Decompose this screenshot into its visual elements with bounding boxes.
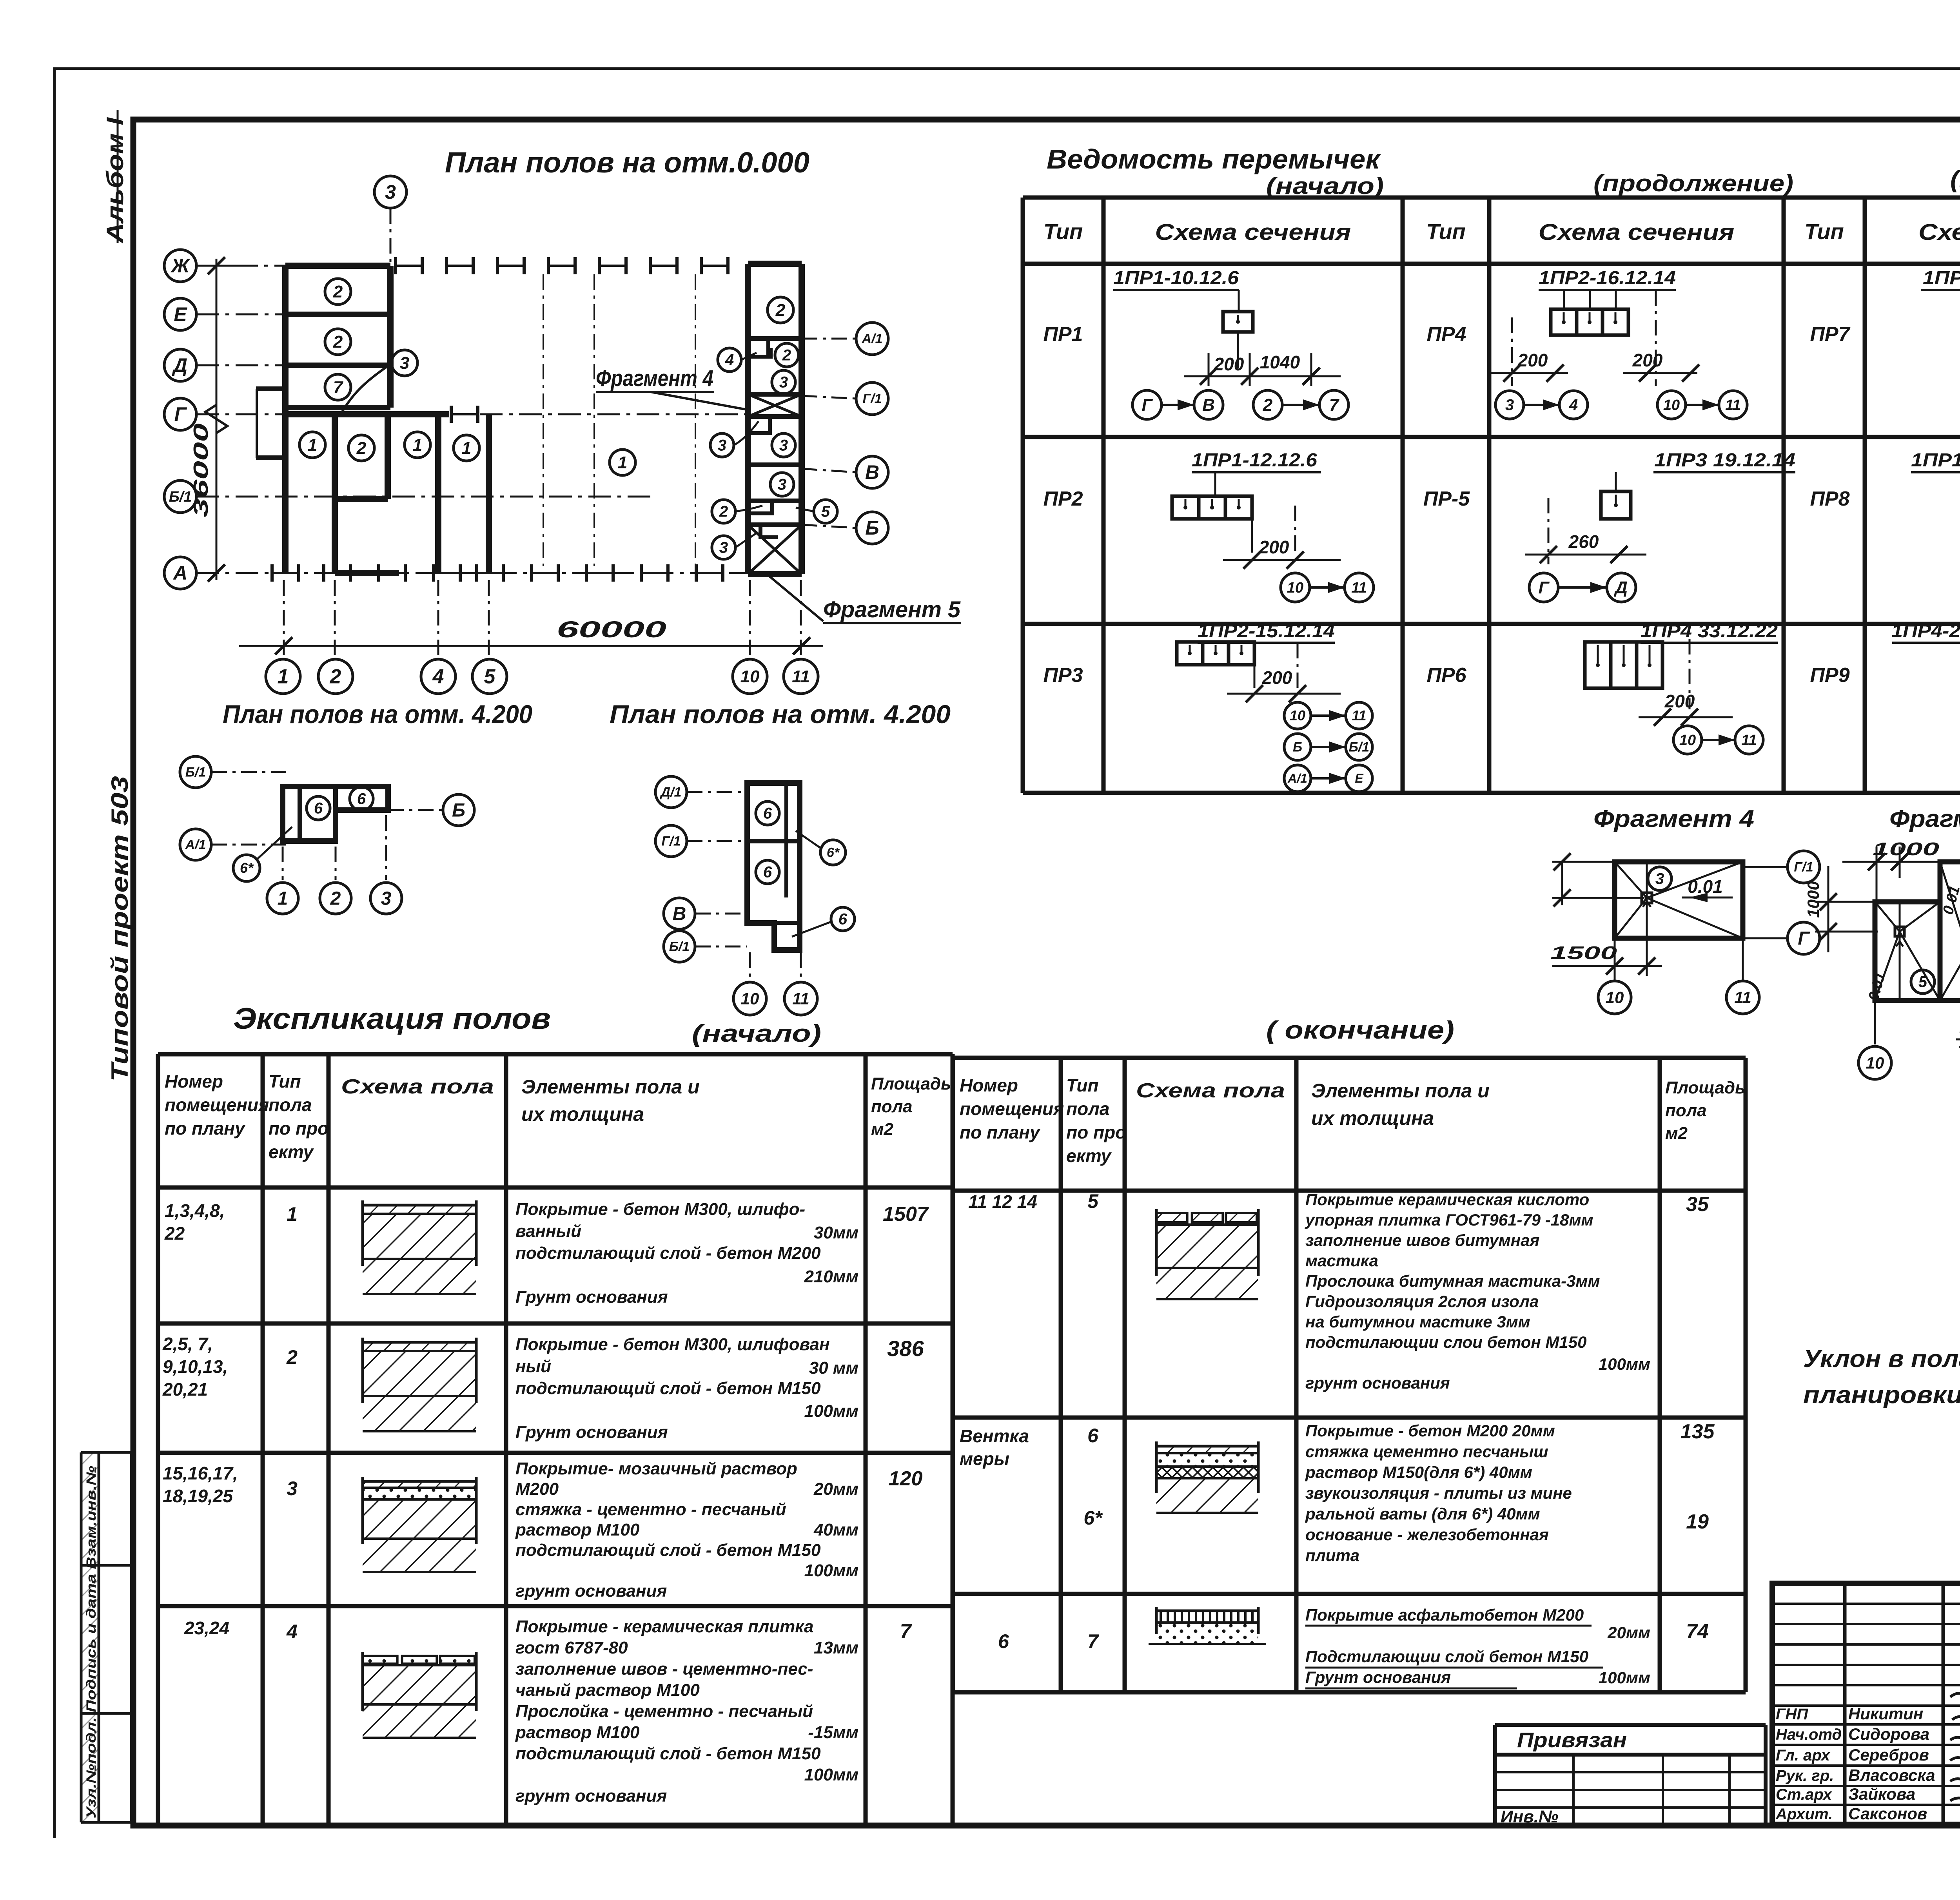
- room label 1 a: [299, 432, 325, 458]
- axis circle 2: [318, 659, 353, 694]
- axis circle 11: [784, 659, 818, 694]
- svg-text:10: 10: [741, 989, 759, 1008]
- svg-text:10: 10: [1663, 397, 1680, 413]
- svg-text:Грунт основания: Грунт основания: [515, 1423, 668, 1442]
- svg-text:пола: пола: [871, 1097, 913, 1116]
- svg-text:11: 11: [792, 667, 810, 686]
- svg-text:Схема сечения: Схема сечения: [1155, 219, 1351, 245]
- leader circle 2 left: [712, 500, 735, 523]
- B/1 wall segment: [335, 496, 388, 502]
- svg-text:2: 2: [333, 282, 343, 301]
- svg-text:Г: Г: [174, 403, 187, 425]
- svg-text:А/1: А/1: [862, 332, 883, 346]
- svg-text:Г: Г: [1142, 395, 1153, 415]
- svg-text:3: 3: [1505, 397, 1514, 414]
- svg-text:ПР1: ПР1: [1043, 323, 1083, 346]
- svg-text:3: 3: [400, 354, 409, 373]
- room label 1 big bay: [610, 450, 635, 475]
- axis circle G: [164, 398, 196, 430]
- svg-text:Схема сечения: Схема сечения: [1539, 219, 1735, 245]
- svg-text:Фрагмент 5: Фрагмент 5: [1889, 805, 1960, 832]
- svg-text:гост 6787-80: гост 6787-80: [515, 1638, 628, 1657]
- svg-text:по про: по про: [1066, 1122, 1126, 1142]
- svg-text:3: 3: [718, 437, 726, 454]
- svg-text:30мм: 30мм: [814, 1223, 858, 1242]
- wall at 989: [385, 414, 391, 499]
- svg-text:6*: 6*: [827, 845, 840, 860]
- svg-text:Е: Е: [174, 303, 187, 325]
- svg-text:200: 200: [1262, 667, 1292, 688]
- leader 6 small right: [831, 907, 855, 931]
- leader circle 3 lower left: [712, 536, 735, 559]
- svg-text:Г/1: Г/1: [661, 834, 681, 849]
- svg-text:Прослоика битумная мастика-3мм: Прослоика битумная мастика-3мм: [1305, 1272, 1600, 1290]
- axis line Zh: [196, 265, 235, 267]
- svg-text:подстилающий слой - бетон М150: подстилающий слой - бетон М150: [515, 1744, 821, 1763]
- svg-text:Е: Е: [1355, 771, 1364, 785]
- svg-text:100мм: 100мм: [1599, 1355, 1650, 1373]
- signature squiggles: [1950, 1690, 1960, 1801]
- svg-text:11: 11: [1351, 580, 1367, 596]
- svg-text:раствор М100: раствор М100: [515, 1723, 640, 1742]
- fragment 4 drain leader: [1648, 867, 1671, 890]
- svg-text:1ПР1-12.12.6: 1ПР1-12.12.6: [1192, 450, 1317, 471]
- svg-text:2: 2: [782, 347, 791, 364]
- axis circle B/1: [164, 480, 196, 513]
- svg-text:грунт основания: грунт основания: [515, 1786, 667, 1806]
- svg-text:Б/1: Б/1: [185, 765, 206, 780]
- svg-text:1: 1: [278, 888, 288, 909]
- svg-text:ПР7: ПР7: [1810, 323, 1850, 346]
- leader circle 3 at G wall: [392, 350, 417, 376]
- explication left table frame: [156, 1054, 160, 1826]
- leader 6star small right: [820, 840, 846, 865]
- room label 2 b: [348, 435, 374, 461]
- svg-text:Грунт основания: Грунт основания: [515, 1287, 668, 1307]
- svg-text:1: 1: [618, 453, 627, 472]
- svg-text:Г: Г: [1538, 578, 1550, 597]
- left margin signature strip: [81, 1452, 99, 1822]
- svg-text:Площадь: Площадь: [871, 1074, 951, 1093]
- svg-text:Покрытие асфальтобетон М200: Покрытие асфальтобетон М200: [1305, 1606, 1584, 1624]
- svg-text:23,24: 23,24: [184, 1618, 229, 1638]
- svg-text:10: 10: [1290, 707, 1305, 723]
- vertical dimension 36000: [216, 259, 218, 580]
- svg-text:Номер: Номер: [960, 1075, 1018, 1095]
- axis 3 circle top: [374, 176, 407, 208]
- svg-text:1: 1: [308, 435, 317, 455]
- svg-text:Схема сечения: Схема сечения: [1918, 219, 1960, 245]
- svg-text:3: 3: [287, 1478, 298, 1499]
- leader circle 5: [814, 500, 837, 523]
- svg-text:11: 11: [1352, 707, 1366, 723]
- svg-text:Зайкова: Зайкова: [1848, 1785, 1915, 1803]
- svg-text:1: 1: [413, 435, 422, 455]
- fragment 4 axis 10: [1598, 981, 1631, 1014]
- svg-text:200: 200: [1214, 354, 1244, 374]
- svg-text:План полов на отм. 4.200: План полов на отм. 4.200: [223, 700, 532, 729]
- room 6 labels small left: [307, 796, 330, 820]
- svg-text:Подстилающии слой бетон М150: Подстилающии слой бетон М150: [1305, 1647, 1588, 1666]
- svg-text:3: 3: [1655, 870, 1664, 888]
- svg-text:5: 5: [484, 665, 496, 688]
- axis circle G/1 small right: [655, 825, 687, 857]
- svg-text:План полов на отм. 4.200: План полов на отм. 4.200: [610, 700, 951, 729]
- svg-text:А: А: [172, 562, 187, 584]
- fragment 4 dims: [1561, 862, 1563, 905]
- svg-text:11: 11: [1741, 732, 1757, 749]
- axis line A: [196, 572, 337, 574]
- svg-text:Ж: Ж: [170, 255, 191, 277]
- svg-text:2,5, 7,: 2,5, 7,: [162, 1334, 213, 1354]
- svg-text:100мм: 100мм: [804, 1401, 858, 1421]
- svg-text:Экспликация полов: Экспликация полов: [233, 1002, 551, 1035]
- svg-text:10: 10: [1287, 580, 1303, 596]
- svg-text:2: 2: [356, 439, 367, 458]
- svg-text:План полов на отм.0.000: План полов на отм.0.000: [445, 146, 809, 179]
- axis circle Zh: [164, 250, 196, 282]
- svg-text:пола: пола: [269, 1095, 312, 1115]
- svg-text:2: 2: [775, 301, 786, 320]
- svg-text:20мм: 20мм: [1607, 1623, 1650, 1642]
- room 6 labels small right: [756, 801, 779, 825]
- svg-text:Ведомость перемычек: Ведомость перемычек: [1047, 144, 1381, 174]
- svg-text:2: 2: [1263, 395, 1273, 415]
- right block outline: [745, 264, 751, 574]
- svg-text:135: 135: [1681, 1420, 1715, 1443]
- svg-text:Тип: Тип: [1066, 1075, 1099, 1095]
- svg-text:м2: м2: [871, 1120, 894, 1139]
- svg-text:11: 11: [1725, 397, 1740, 413]
- room label 7: [325, 374, 351, 400]
- svg-text:Серебров: Серебров: [1848, 1746, 1929, 1764]
- svg-text:22: 22: [164, 1223, 185, 1244]
- svg-text:Площадь: Площадь: [1665, 1078, 1745, 1097]
- svg-text:6: 6: [838, 911, 848, 928]
- svg-text:Никитин: Никитин: [1848, 1704, 1923, 1723]
- axis circle B/1 small right: [664, 931, 695, 962]
- svg-text:11 12 14: 11 12 14: [968, 1191, 1037, 1212]
- svg-text:30 мм: 30 мм: [809, 1358, 858, 1378]
- svg-text:3: 3: [381, 888, 392, 909]
- svg-text:меры: меры: [960, 1449, 1009, 1469]
- axis circle E: [164, 298, 196, 330]
- svg-text:10: 10: [1679, 732, 1696, 749]
- svg-text:ПР4: ПР4: [1426, 323, 1466, 346]
- svg-text:5: 5: [1918, 974, 1927, 991]
- svg-text:помещения: помещения: [165, 1095, 269, 1115]
- svg-text:Саксонов: Саксонов: [1848, 1804, 1927, 1823]
- lintel table frame: [1023, 196, 1960, 200]
- svg-text:1ПР2-16.12.14: 1ПР2-16.12.14: [1539, 268, 1676, 288]
- small partition steps: [748, 348, 771, 357]
- svg-text:Г: Г: [1798, 928, 1810, 949]
- break symbol on dim line: [205, 405, 227, 433]
- svg-text:ГНП: ГНП: [1776, 1706, 1808, 1723]
- svg-text:Тип: Тип: [1426, 219, 1466, 244]
- grid leaders down: [283, 580, 285, 659]
- svg-text:Б/1: Б/1: [669, 939, 690, 954]
- middle column axis lines: [543, 274, 544, 566]
- svg-text:по плану: по плану: [960, 1122, 1041, 1142]
- leader circle 4: [718, 348, 741, 372]
- svg-text:грунт основания: грунт основания: [1305, 1374, 1450, 1392]
- svg-text:Нач.отд: Нач.отд: [1776, 1726, 1842, 1743]
- leaders down small left: [282, 847, 284, 880]
- svg-text:3: 3: [778, 476, 786, 493]
- svg-text:Покрытие - бетон М200 20мм: Покрытие - бетон М200 20мм: [1305, 1421, 1555, 1440]
- svg-text:11: 11: [792, 989, 809, 1008]
- svg-text:6: 6: [357, 790, 366, 808]
- svg-text:Гидроизоляция 2слоя изола: Гидроизоляция 2слоя изола: [1305, 1292, 1539, 1311]
- svg-text:7: 7: [1329, 395, 1340, 415]
- svg-text:1ПР1-12.12.6: 1ПР1-12.12.6: [1911, 450, 1960, 471]
- axis circle V small right: [664, 898, 695, 929]
- svg-text:Г/1: Г/1: [1794, 860, 1813, 875]
- svg-text:200: 200: [1517, 350, 1548, 370]
- svg-text:Ст.арх: Ст.арх: [1776, 1786, 1833, 1803]
- fragment 4 bottom leaders: [1614, 976, 1616, 980]
- small plan left outline: [283, 787, 388, 841]
- svg-text:7: 7: [900, 1620, 912, 1643]
- svg-text:ПР3: ПР3: [1043, 664, 1083, 687]
- svg-text:пола: пола: [1066, 1099, 1109, 1119]
- svg-text:-15мм: -15мм: [808, 1723, 858, 1742]
- svg-text:ПР-5: ПР-5: [1423, 488, 1470, 510]
- axis circle B right: [856, 512, 888, 544]
- svg-text:18,19,25: 18,19,25: [163, 1486, 233, 1506]
- svg-text:стяжка цементно песчаныш: стяжка цементно песчаныш: [1305, 1442, 1548, 1461]
- leader circle 3 left: [710, 433, 734, 457]
- fragment 4 plan: [1615, 862, 1743, 938]
- svg-text:3: 3: [779, 374, 788, 391]
- svg-text:2: 2: [286, 1346, 298, 1368]
- svg-text:Покрытие - бетон М300, шлифо-: Покрытие - бетон М300, шлифо-: [515, 1200, 805, 1219]
- svg-text:помещения: помещения: [960, 1099, 1064, 1119]
- svg-text:4: 4: [725, 352, 734, 369]
- svg-text:60000: 60000: [557, 617, 666, 642]
- svg-text:Сидорова: Сидорова: [1848, 1725, 1929, 1743]
- axis circle 10 small right: [733, 982, 766, 1015]
- svg-text:по про: по про: [269, 1118, 328, 1139]
- svg-text:Д/1: Д/1: [660, 785, 682, 800]
- svg-text:основание - железобетонная: основание - железобетонная: [1305, 1525, 1549, 1544]
- svg-text:386: 386: [887, 1336, 924, 1361]
- axis circle B small left: [443, 794, 474, 826]
- svg-text:1000: 1000: [1804, 881, 1822, 917]
- small plan right outline: [747, 783, 800, 950]
- svg-text:стяжка - цементно - песчаный: стяжка - цементно - песчаный: [515, 1500, 786, 1519]
- svg-text:чаный раствор М100: чаный раствор М100: [515, 1681, 700, 1700]
- svg-text:Г/1: Г/1: [862, 392, 882, 406]
- axis line B/1: [196, 496, 653, 498]
- svg-text:плита: плита: [1305, 1546, 1359, 1565]
- svg-text:екту: екту: [269, 1142, 314, 1162]
- svg-text:Тип: Тип: [1804, 219, 1844, 244]
- svg-text:10: 10: [740, 667, 760, 686]
- axis circle D/1 small right: [655, 776, 687, 808]
- svg-text:9,10,13,: 9,10,13,: [163, 1356, 228, 1377]
- svg-text:1,3,4,8,: 1,3,4,8,: [165, 1200, 225, 1221]
- leader 6star small left: [233, 855, 260, 881]
- svg-text:Альбом I: Альбом I: [102, 117, 128, 244]
- svg-text:15,16,17,: 15,16,17,: [163, 1463, 238, 1483]
- svg-text:Инв.№: Инв.№: [1501, 1807, 1558, 1826]
- title block frame: [1772, 1583, 1960, 1824]
- svg-text:19: 19: [1686, 1510, 1709, 1533]
- svg-text:3: 3: [719, 539, 728, 557]
- svg-text:планировки грунта.: планировки грунта.: [1803, 1381, 1960, 1409]
- svg-text:Архит.: Архит.: [1775, 1806, 1833, 1823]
- svg-text:ПР2: ПР2: [1043, 488, 1083, 510]
- svg-text:4: 4: [286, 1621, 298, 1643]
- svg-text:Типовой проект 503: Типовой проект 503: [107, 776, 133, 1082]
- axis circle A/1 small left: [180, 829, 211, 860]
- svg-text:3: 3: [779, 437, 788, 454]
- svg-text:20мм: 20мм: [813, 1479, 858, 1499]
- svg-text:Б/1: Б/1: [169, 489, 192, 505]
- axis circle 5: [472, 659, 507, 694]
- svg-text:13мм: 13мм: [814, 1638, 858, 1657]
- svg-text:Элементы пола и: Элементы пола и: [1311, 1080, 1490, 1102]
- svg-text:В: В: [865, 461, 879, 483]
- svg-text:20,21: 20,21: [162, 1379, 208, 1400]
- svg-text:Фрагмент 5: Фрагмент 5: [823, 597, 961, 622]
- privyazan table: [1495, 1723, 1766, 1727]
- leaders down small right: [749, 952, 751, 980]
- fragment 4 axis G: [1788, 922, 1820, 954]
- axis line D: [196, 364, 285, 366]
- svg-text:100мм: 100мм: [804, 1561, 858, 1580]
- svg-text:подстилающий слой - бетон М150: подстилающий слой - бетон М150: [515, 1541, 821, 1560]
- svg-text:грунт основания: грунт основания: [515, 1581, 667, 1601]
- axis circle V right: [856, 456, 888, 488]
- svg-text:Элементы пола и: Элементы пола и: [521, 1076, 700, 1098]
- svg-text:7: 7: [333, 378, 344, 397]
- axis circle D: [164, 349, 196, 381]
- svg-text:36000: 36000: [190, 423, 212, 517]
- svg-text:6: 6: [763, 864, 772, 881]
- svg-text:раствор М100: раствор М100: [515, 1520, 640, 1539]
- svg-text:ПР8: ПР8: [1810, 488, 1849, 510]
- svg-text:Покрытие- мозаичный раствор: Покрытие- мозаичный раствор: [515, 1459, 797, 1478]
- svg-text:подстилающии слои бетон М150: подстилающии слои бетон М150: [1305, 1333, 1587, 1351]
- svg-text:мастика: мастика: [1305, 1251, 1378, 1270]
- svg-text:( окончание): ( окончание): [1266, 1016, 1454, 1044]
- axis circle 4: [421, 659, 456, 694]
- svg-text:подстилающий слой - бетон М200: подстилающий слой - бетон М200: [515, 1244, 821, 1263]
- svg-text:ПР6: ПР6: [1426, 664, 1466, 687]
- svg-text:2: 2: [333, 332, 343, 352]
- svg-text:Б: Б: [865, 517, 879, 539]
- A axis ticks: [272, 564, 299, 582]
- svg-text:1ПР4-29.12.29: 1ПР4-29.12.29: [1891, 621, 1960, 642]
- svg-text:Привязан: Привязан: [1517, 1728, 1627, 1752]
- svg-text:6: 6: [314, 800, 323, 817]
- stair pocket left of wall: [256, 386, 285, 391]
- svg-text:заполнение швов битумная: заполнение швов битумная: [1305, 1231, 1539, 1249]
- svg-text:2: 2: [330, 888, 341, 909]
- svg-text:74: 74: [1686, 1620, 1709, 1643]
- svg-text:(продолжение): (продолжение): [1950, 166, 1960, 192]
- axis circle 10: [733, 659, 767, 694]
- axis circle 1 small left: [267, 883, 298, 914]
- svg-text:120: 120: [889, 1467, 923, 1490]
- svg-text:1: 1: [278, 665, 289, 688]
- svg-text:Номер: Номер: [165, 1071, 223, 1091]
- room label 1 d: [454, 435, 479, 461]
- svg-text:Узл.№подл. Подпись и дата Взам: Узл.№подл. Подпись и дата Взам.инв.№: [84, 1466, 99, 1818]
- svg-text:6: 6: [1087, 1425, 1099, 1447]
- room label 1 c: [405, 432, 430, 458]
- room label 2 top block: [325, 279, 351, 305]
- axis line E: [196, 314, 285, 315]
- bottom dimension 60000: [239, 645, 823, 647]
- fragment 4 axis 11: [1726, 981, 1759, 1014]
- A line wall segment: [335, 570, 399, 576]
- axis circle A/1 right: [856, 323, 888, 355]
- svg-text:1ПР4 33.12.22: 1ПР4 33.12.22: [1641, 621, 1778, 642]
- svg-text:Вентка: Вентка: [960, 1426, 1029, 1446]
- svg-text:1ПР2-15.12.14: 1ПР2-15.12.14: [1198, 621, 1335, 642]
- axis circle 1: [266, 659, 300, 694]
- svg-text:раствор М150(для 6*) 40мм: раствор М150(для 6*) 40мм: [1305, 1463, 1532, 1481]
- svg-text:6*: 6*: [1083, 1507, 1103, 1529]
- svg-text:(начало): (начало): [692, 1020, 821, 1047]
- svg-text:Покрытие керамическая кислото: Покрытие керамическая кислото: [1305, 1190, 1589, 1209]
- svg-text:звукоизоляция - плиты из мине: звукоизоляция - плиты из мине: [1305, 1484, 1572, 1502]
- svg-text:1ПР1-10.12.6: 1ПР1-10.12.6: [1923, 268, 1960, 288]
- svg-text:Д: Д: [172, 354, 187, 376]
- svg-text:2: 2: [330, 665, 341, 688]
- svg-text:Рук. гр.: Рук. гр.: [1776, 1767, 1834, 1784]
- svg-text:их толщина: их толщина: [521, 1103, 644, 1125]
- svg-text:Д: Д: [1613, 578, 1628, 597]
- axis circle G/1 right: [856, 383, 888, 415]
- svg-text:ный: ный: [515, 1357, 551, 1376]
- svg-text:Б: Б: [452, 800, 465, 821]
- svg-text:(продолжение): (продолжение): [1593, 170, 1793, 196]
- svg-text:1ПР1-10.12.6: 1ПР1-10.12.6: [1113, 268, 1239, 288]
- svg-text:1ПР3 19.12.14: 1ПР3 19.12.14: [1654, 450, 1795, 471]
- axis circle A: [164, 557, 196, 589]
- ticks row on axis Zh: [396, 257, 422, 274]
- svg-text:А/1: А/1: [185, 838, 206, 852]
- axis circle 3 small left: [370, 883, 402, 914]
- wall axis 5: [486, 414, 492, 573]
- svg-text:м2: м2: [1665, 1124, 1688, 1143]
- svg-text:Схема пола: Схема пола: [341, 1075, 494, 1098]
- svg-text:5: 5: [1087, 1190, 1099, 1212]
- svg-text:на битумнои мастике 3мм: на битумнои мастике 3мм: [1305, 1313, 1530, 1331]
- fragment 5 axis 10: [1858, 1046, 1891, 1079]
- svg-text:6: 6: [998, 1630, 1009, 1652]
- svg-text:заполнение швов - цементно-пес: заполнение швов - цементно-пес-: [515, 1659, 813, 1679]
- svg-text:Тип: Тип: [269, 1071, 301, 1091]
- G line building edge: [285, 411, 449, 417]
- svg-text:6: 6: [763, 805, 772, 822]
- svg-text:Фрагмент 4: Фрагмент 4: [1593, 805, 1754, 832]
- svg-text:Покрытие - керамическая плитка: Покрытие - керамическая плитка: [515, 1617, 814, 1636]
- svg-text:3: 3: [385, 181, 396, 203]
- svg-text:Прослойка - цементно - песчаны: Прослойка - цементно - песчаный: [515, 1702, 813, 1721]
- svg-text:11: 11: [1734, 988, 1751, 1006]
- svg-text:260: 260: [1568, 531, 1599, 552]
- fragment 5 bottom leaders: [1874, 1003, 1876, 1044]
- svg-text:210мм: 210мм: [804, 1267, 858, 1286]
- svg-text:ванный: ванный: [515, 1222, 581, 1241]
- svg-text:упорная плитка ГОСТ961-79 -18м: упорная плитка ГОСТ961-79 -18мм: [1305, 1211, 1593, 1229]
